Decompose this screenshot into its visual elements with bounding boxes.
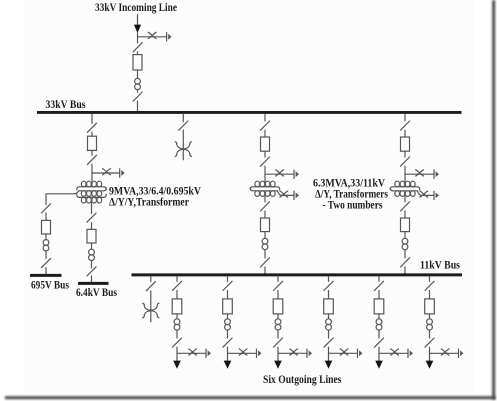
outgoing 6 tap terminal arrow <box>458 349 460 357</box>
isolator T2 upper <box>260 121 269 130</box>
outgoing 5 line arrow <box>375 361 383 369</box>
wire outgoing 3 tap branch <box>278 352 307 354</box>
outgoing 5 tap crossed mark <box>391 349 399 355</box>
circuit breaker T1 <box>88 136 97 150</box>
CT 695V leg <box>43 240 49 246</box>
wire T1 breaker down <box>91 150 93 155</box>
circuit breaker outgoing 3 <box>273 299 283 314</box>
wire outgoing 2 to arrow <box>227 347 229 361</box>
transformer T1 tertiary winding <box>79 196 104 198</box>
circuit breaker outgoing 4 <box>324 299 334 314</box>
wire T2 breaker down <box>264 151 266 157</box>
isolator 6.4kV leg <box>87 213 96 222</box>
svg-text:11kV Bus: 11kV Bus <box>420 260 460 272</box>
wire bus to T3 isolator <box>404 114 406 121</box>
wire CT down outgoing 4 <box>328 330 330 338</box>
wire to T3 LV breaker <box>404 211 406 218</box>
lightning arrester 11kV <box>144 305 151 310</box>
outgoing 3 tap terminal arrow <box>306 349 308 357</box>
wire T2 to 11kV bus <box>264 267 266 274</box>
isolator T3 LV upper <box>400 202 409 211</box>
isolator arrester drop 33kV <box>179 121 188 130</box>
wire to T1 breaker <box>91 132 93 136</box>
wire T1 tap branch <box>92 172 119 174</box>
CT T2 LV <box>262 238 268 244</box>
wire outgoing 5 to arrow <box>378 347 380 361</box>
isolator outgoing 3 <box>273 281 282 290</box>
wire to 33kV bus <box>137 101 139 111</box>
transformer T2 secondary winding <box>253 190 278 192</box>
isolator on incoming <box>133 43 142 52</box>
isolator outgoing 1 lower <box>172 338 181 347</box>
circuit breaker incoming <box>133 55 142 70</box>
wire breaker to CT outgoing 5 <box>378 314 380 319</box>
wire breaker to CT outgoing 6 <box>429 314 431 319</box>
isolator arrester drop 11kV <box>146 282 155 291</box>
circuit breaker T3 LV <box>401 218 410 232</box>
isolator outgoing 2 <box>223 281 232 290</box>
outgoing 3 line arrow <box>274 361 282 369</box>
CT outgoing 3 <box>275 319 281 325</box>
circuit breaker outgoing 5 <box>374 299 384 314</box>
CT outgoing 5 <box>376 319 382 325</box>
circuit breaker outgoing 2 <box>223 299 233 314</box>
isolator T3 lower <box>400 157 409 166</box>
shadow bottom edge <box>5 396 496 399</box>
isolator outgoing 4 lower <box>324 338 333 347</box>
wire T3 CT down <box>404 250 406 258</box>
transformer T1 secondary winding <box>79 190 104 192</box>
outgoing 1 tap terminal arrow <box>205 349 207 357</box>
T1 tap crossed mark <box>103 169 111 175</box>
incoming line arrow <box>134 25 141 33</box>
CT outgoing 6 <box>427 319 433 325</box>
wire to breaker outgoing 3 <box>277 291 279 299</box>
wire to breaker <box>137 52 139 55</box>
wire outgoing 3 to arrow <box>277 347 279 361</box>
isolator T2 LV lower <box>260 258 269 267</box>
isolator outgoing 4 <box>324 281 333 290</box>
wire T1 tertiary lead down <box>91 201 93 214</box>
transformer T3 primary winding <box>393 186 418 188</box>
outgoing 1 tap crossed mark <box>189 349 197 355</box>
T2 HV tap terminal arrow <box>293 170 295 178</box>
wire T2 LV breaker to CT <box>264 232 266 239</box>
wire to breaker outgoing 4 <box>328 291 330 299</box>
outgoing 3 tap crossed mark <box>290 349 298 355</box>
wire T2 to transformer <box>264 166 266 184</box>
isolator outgoing 5 <box>374 281 383 290</box>
wire T3 LV breaker to CT <box>404 232 406 239</box>
shadow right edge <box>492 0 495 400</box>
695V bus <box>30 274 62 277</box>
svg-text:Six Outgoing Lines: Six Outgoing Lines <box>263 374 342 386</box>
wire breaker to CT 695V leg <box>45 234 47 240</box>
isolator 6.4kV leg lower <box>87 267 96 276</box>
wire CT down outgoing 1 <box>176 330 178 338</box>
wire outgoing 6 tap branch <box>430 352 459 354</box>
T3 HV tap crossed mark <box>416 170 424 176</box>
T3 LV tap terminal arrow <box>433 191 435 199</box>
transformer T1 primary winding <box>79 186 104 188</box>
wire bus to outgoing 4 isolator <box>328 276 330 281</box>
isolator T1 upper <box>87 123 96 132</box>
outgoing 5 tap terminal arrow <box>407 349 409 357</box>
wire to breaker outgoing 5 <box>378 291 380 299</box>
isolator outgoing 3 lower <box>273 338 282 347</box>
T2 HV tap crossed mark <box>276 170 284 176</box>
isolator T3 LV lower <box>400 258 409 267</box>
wire bus to outgoing 2 isolator <box>227 276 229 281</box>
isolator outgoing 5 lower <box>374 338 383 347</box>
wire breaker to CT <box>137 70 139 78</box>
wire breaker to CT outgoing 2 <box>227 314 229 319</box>
T2 LV tap crossed mark <box>280 191 288 197</box>
wire tap branch <box>138 36 167 38</box>
wire to breaker outgoing 6 <box>429 291 431 299</box>
outgoing 6 tap crossed mark <box>441 349 449 355</box>
wire incoming stub <box>137 15 139 26</box>
wire to 6.4kV breaker <box>91 223 93 230</box>
wire breaker to CT 6.4kV leg <box>91 243 93 249</box>
circuit breaker T2 <box>261 137 270 151</box>
isolator 695V leg lower <box>41 258 50 267</box>
wire outgoing 6 to arrow <box>429 347 431 361</box>
wire T3 LV tap branch <box>417 191 433 196</box>
isolator T2 lower <box>260 157 269 166</box>
wire to T3 breaker <box>404 130 406 137</box>
wire to 695V breaker <box>45 213 47 220</box>
T3 HV tap terminal arrow <box>433 170 435 178</box>
isolator T1 lower <box>87 155 96 164</box>
tap terminal arrow <box>166 33 168 41</box>
svg-text:- Two numbers: - Two numbers <box>323 200 383 212</box>
wire breaker to CT outgoing 1 <box>176 314 178 319</box>
11kV bus <box>132 273 463 276</box>
wire CT down outgoing 5 <box>378 330 380 338</box>
outgoing 1 line arrow <box>173 361 181 369</box>
wire T1 to transformer <box>91 164 93 183</box>
wire CT down 695V leg <box>45 251 47 258</box>
circuit breaker outgoing 6 <box>425 299 435 314</box>
wire CT down outgoing 6 <box>429 330 431 338</box>
wire T3 to 11kV bus <box>404 267 406 274</box>
CT 6.4kV leg <box>89 249 95 255</box>
wire outgoing 5 tap branch <box>379 352 408 354</box>
circuit breaker 695V leg <box>42 220 51 234</box>
wire breaker to CT outgoing 3 <box>277 314 279 319</box>
CT outgoing 1 <box>174 319 180 325</box>
circuit breaker T2 LV <box>261 218 270 232</box>
T3 LV tap crossed mark <box>420 191 428 197</box>
wire T2 secondary down <box>264 194 266 202</box>
transformer T2 primary winding <box>253 186 278 188</box>
outgoing 6 line arrow <box>426 361 434 369</box>
svg-text:33kV Incoming Line: 33kV Incoming Line <box>95 2 177 14</box>
wire T2 LV tap branch <box>277 191 293 196</box>
wire outgoing 4 to arrow <box>328 347 330 361</box>
isolator T3 upper <box>400 121 409 130</box>
wire T3 breaker down <box>404 151 406 157</box>
wire CT down outgoing 2 <box>227 330 229 338</box>
wire CT to isolator <box>137 90 139 92</box>
wire arrester drop 33kV <box>182 130 184 160</box>
T1 tap terminal arrow <box>119 169 121 177</box>
wire T3 HV tap branch <box>405 173 434 175</box>
isolator 695V leg <box>41 204 50 213</box>
wire T3 secondary down <box>404 194 406 202</box>
wire to 6.4kV bus <box>91 276 93 282</box>
lightning arrester 33kV <box>177 143 184 148</box>
transformer T3 secondary winding <box>393 190 418 192</box>
wire outgoing 1 to arrow <box>176 347 178 361</box>
svg-text:6.4kV Bus: 6.4kV Bus <box>76 287 117 299</box>
isolator T2 LV upper <box>260 202 269 211</box>
33kV bus <box>37 111 462 114</box>
wire CT down outgoing 3 <box>277 330 279 338</box>
wire T3 to transformer <box>404 166 406 184</box>
svg-text:Δ/Y/Y,Transformer: Δ/Y/Y,Transformer <box>109 197 189 209</box>
wire incoming to tap node <box>137 33 139 43</box>
isolator outgoing 2 lower <box>223 338 232 347</box>
wire bus to T2 isolator <box>264 114 266 121</box>
wire arrester drop 11kV <box>150 291 152 322</box>
T2 LV tap terminal arrow <box>293 191 295 199</box>
outgoing 4 line arrow <box>325 361 333 369</box>
tap crossed mark <box>148 32 156 38</box>
isolator outgoing 6 <box>425 281 434 290</box>
outgoing 2 tap crossed mark <box>239 349 247 355</box>
wire T2 HV tap branch <box>265 173 294 175</box>
CT incoming <box>135 78 141 84</box>
wire bus to outgoing 6 isolator <box>429 276 431 281</box>
wire bus to outgoing 3 isolator <box>277 276 279 281</box>
wire outgoing 2 tap branch <box>228 352 257 354</box>
wire T2 CT down <box>264 250 266 258</box>
wire bus to arrester 11kV <box>150 276 152 281</box>
wire bus to T1 isolator <box>91 114 93 123</box>
wire outgoing 1 tap branch <box>177 352 206 354</box>
svg-text:33kV Bus: 33kV Bus <box>46 99 86 111</box>
CT T3 LV <box>402 238 408 244</box>
wire to 695V bus <box>45 268 47 274</box>
circuit breaker T3 <box>401 137 410 151</box>
wire CT down 6.4kV leg <box>91 261 93 268</box>
isolator incoming lower <box>133 92 142 101</box>
wire to breaker outgoing 1 <box>176 291 178 299</box>
wire bus to outgoing 5 isolator <box>378 276 380 281</box>
wire T1 secondary lead left <box>46 191 79 205</box>
wire outgoing 4 tap branch <box>329 352 358 354</box>
6.4kV bus <box>78 282 109 285</box>
circuit breaker 6.4kV leg <box>87 229 96 243</box>
wire to T2 LV breaker <box>264 211 266 218</box>
isolator outgoing 6 lower <box>425 338 434 347</box>
outgoing 4 tap crossed mark <box>340 349 348 355</box>
outgoing 2 tap terminal arrow <box>256 349 258 357</box>
CT outgoing 4 <box>326 319 332 325</box>
CT outgoing 2 <box>225 319 231 325</box>
wire to breaker outgoing 2 <box>227 291 229 299</box>
wire bus to arrester 33kV <box>182 114 184 122</box>
wire breaker to CT outgoing 4 <box>328 314 330 319</box>
wire bus to outgoing 1 isolator <box>176 276 178 281</box>
outgoing 4 tap terminal arrow <box>357 349 359 357</box>
wire to T2 breaker <box>264 130 266 137</box>
outgoing 2 line arrow <box>224 361 232 369</box>
isolator outgoing 1 <box>172 281 181 290</box>
svg-text:695V Bus: 695V Bus <box>31 280 69 292</box>
circuit breaker outgoing 1 <box>172 299 182 314</box>
